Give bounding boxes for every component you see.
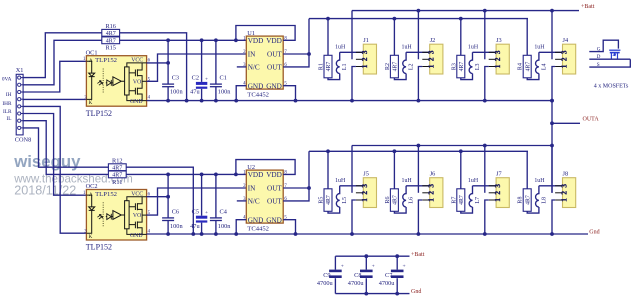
junction trunk top — [550, 99, 554, 103]
svg-text:TLP152: TLP152 — [95, 191, 117, 198]
wire OUTA trunk lower — [551, 146, 553, 193]
wire OC2 VO riser to U2 IN — [147, 188, 247, 215]
junction C4 bottom — [214, 232, 218, 236]
label C5 — [192, 209, 199, 216]
svg-text:J6: J6 — [430, 171, 436, 178]
wire X1 pin4 to OC1 cathode — [23, 98, 86, 100]
svg-text:OC1: OC1 — [86, 49, 98, 56]
OC1 isolation barrier — [102, 69, 104, 94]
label 1uH L7 — [468, 178, 479, 184]
label R1 — [319, 63, 325, 70]
svg-text:C5: C5 — [192, 209, 199, 216]
svg-text:R3: R3 — [451, 63, 457, 70]
wire J4 pin 1 to rail — [552, 67, 555, 101]
net label IHR — [2, 101, 12, 107]
junction C5 bottom — [200, 232, 204, 236]
OC2 amplifier — [113, 211, 125, 220]
junction feed J3 — [483, 9, 487, 13]
watermark wiseguy — [13, 152, 81, 171]
svg-text:3: 3 — [560, 50, 568, 54]
label R3 — [451, 63, 457, 70]
label C4 value — [218, 223, 231, 230]
svg-text:1uH: 1uH — [534, 44, 545, 50]
svg-text:+: + — [403, 264, 406, 270]
label R16 — [105, 23, 116, 30]
connector J1 body — [363, 44, 376, 74]
svg-text:A: A — [89, 193, 93, 198]
net label Gnd bottom — [411, 289, 421, 295]
junction C2 top — [200, 38, 204, 42]
junction gate rail R3 — [459, 17, 463, 21]
wire L1 to J1 pin 3 — [340, 51, 364, 53]
junction U1 OUT pins — [307, 52, 311, 56]
J4 pin 3 — [555, 50, 568, 54]
wire L2 to J2 pin 3 — [406, 51, 430, 53]
label OC1 VO — [133, 79, 141, 85]
junction U1 GND pin5 — [294, 99, 298, 103]
junction J4 pin1 rail — [550, 99, 554, 103]
label 1uH L8 — [534, 178, 545, 184]
wire R3 to L3 — [461, 74, 473, 80]
inductor L4 — [536, 52, 539, 73]
junction gate rail R1 — [326, 17, 330, 21]
label L2 — [409, 63, 415, 70]
watermark date — [14, 183, 76, 197]
label R2 — [385, 63, 391, 70]
svg-text:+: + — [205, 76, 208, 82]
junction C8 bottom — [364, 292, 368, 296]
OC1 lower transistor — [129, 81, 142, 100]
junction C8 top — [364, 254, 368, 258]
op-amp driver U1 body — [246, 36, 283, 89]
label OC1 — [86, 49, 98, 56]
svg-text:1: 1 — [494, 64, 502, 68]
wire R15 output VDD rail A — [120, 39, 247, 41]
svg-text:1: 1 — [494, 198, 502, 202]
inductor L2 — [403, 52, 406, 73]
svg-text:1uH: 1uH — [335, 178, 346, 184]
wire X1 pin6 to OC2 anode — [23, 114, 86, 196]
resistor R12 — [108, 164, 126, 172]
net label 0VA — [2, 77, 12, 83]
wire J6 pin 1 to rail — [418, 200, 422, 234]
svg-text:N/C: N/C — [248, 198, 260, 206]
svg-text:N/C: N/C — [248, 64, 260, 72]
label U2 pin 7 OUT — [267, 184, 287, 193]
wire gate rail to R3 — [460, 19, 462, 56]
label L5 — [342, 197, 348, 204]
junction C1 top — [214, 38, 218, 42]
wire U1 GND pin5 drop — [283, 86, 295, 101]
junction C6 bottom — [166, 232, 170, 236]
svg-text:VCC: VCC — [131, 192, 143, 198]
label C3 value — [170, 89, 183, 96]
svg-text:4R7: 4R7 — [106, 39, 116, 45]
connector J3 body — [496, 44, 509, 74]
OC1 inner VCC rail — [127, 63, 147, 67]
svg-text:+: + — [205, 210, 208, 216]
wire drain rail B — [352, 145, 552, 147]
label U2 pin 4 GND — [243, 216, 263, 225]
wire OUTA trunk upper — [551, 101, 553, 146]
wire L4 to J4 pin 3 — [539, 51, 563, 53]
label OC2 — [86, 183, 98, 190]
svg-text:U1: U1 — [247, 30, 255, 37]
label C1 value — [218, 89, 231, 96]
svg-text:GND: GND — [130, 233, 143, 239]
svg-text:1uH: 1uH — [534, 178, 545, 184]
svg-text:J8: J8 — [563, 171, 569, 178]
J6 pin 1 — [422, 198, 435, 202]
wire X1 pin7 to R11 — [23, 121, 108, 175]
connector X1 pin 5 circle — [18, 105, 24, 108]
wire L7 to J7 pin 3 — [473, 185, 497, 187]
label C2 value — [190, 89, 200, 96]
op-amp driver U2 body — [246, 170, 283, 223]
label C9 — [323, 272, 330, 279]
label 1uH L2 — [402, 44, 413, 50]
resistor R6 — [390, 189, 398, 212]
capacitor C5 — [196, 174, 208, 234]
wire source lead — [589, 59, 630, 67]
svg-text:R2: R2 — [385, 63, 391, 70]
svg-text:2: 2 — [494, 57, 502, 61]
svg-text:R5: R5 — [319, 197, 325, 204]
svg-text:J3: J3 — [496, 37, 502, 44]
junction J8 pin1 rail — [550, 232, 554, 236]
label U2 pin 2 IN — [243, 184, 256, 193]
svg-text:4R7: 4R7 — [393, 62, 399, 72]
connector X1 pin 2 circle — [18, 83, 24, 86]
transistor Q legs — [611, 53, 617, 60]
wire L6 to J6 pin 3 — [406, 185, 430, 187]
wire U1 VDD loop — [236, 26, 295, 41]
label X1 — [16, 67, 24, 74]
OC1 amplifier — [113, 77, 125, 86]
svg-text:C4: C4 — [220, 209, 228, 216]
label 1uH L5 — [335, 178, 346, 184]
svg-text:+: + — [341, 264, 344, 270]
svg-text:100n: 100n — [170, 89, 183, 96]
svg-text:R1: R1 — [319, 63, 325, 70]
wire +rail to J1 pin 2 — [351, 11, 353, 60]
label 1uH L1 — [335, 44, 346, 50]
wire gate lead — [589, 40, 618, 51]
wire +Batt rail — [352, 10, 579, 12]
svg-text:4 x MOSFETs: 4 x MOSFETs — [594, 83, 629, 89]
wire gate rail A — [309, 18, 528, 20]
label C2 — [192, 75, 199, 82]
connector X1 pin 6 circle — [18, 112, 24, 115]
wire ground rail B (Gnd) — [147, 233, 588, 235]
junction R12 drop — [191, 232, 195, 236]
junction J2 pin1 rail — [417, 99, 421, 103]
svg-text:R7: R7 — [451, 197, 457, 204]
resistor R11 — [108, 171, 126, 179]
svg-text:3: 3 — [560, 184, 568, 188]
svg-text:+Batt: +Batt — [411, 252, 425, 258]
wire gate rail B — [309, 150, 528, 152]
svg-text:R8: R8 — [518, 197, 524, 204]
label U1 pin 2 IN — [243, 50, 256, 59]
inductor L6 — [403, 186, 406, 207]
svg-text:+Batt: +Batt — [581, 4, 595, 10]
wire gate rail to R1 — [327, 19, 329, 56]
wire U1 OUT riser — [283, 19, 309, 67]
junction C7 bottom — [395, 292, 399, 296]
resistor R3 — [457, 55, 465, 78]
wire X1 pin3 to OC1 anode — [23, 61, 86, 92]
junction U2 OUT pins — [307, 186, 311, 190]
opto-coupler OC1 body — [86, 56, 146, 106]
label U1 pin 8 VDD — [266, 36, 287, 45]
label OC1 pin 1 — [83, 57, 86, 62]
svg-text:4R7: 4R7 — [525, 195, 531, 205]
label R7 — [451, 197, 457, 204]
wire +rail to J4 pin 2 — [551, 11, 553, 60]
svg-text:1uH: 1uH — [468, 178, 479, 184]
svg-text:C9: C9 — [323, 272, 330, 279]
label U2 pin 8 VDD — [266, 170, 287, 179]
J5 pin 3 — [356, 184, 369, 188]
connector X1 pin 7 circle — [18, 119, 24, 122]
wire R1 to L1 — [328, 74, 340, 80]
wire OC1 VO riser to U1 IN — [147, 54, 247, 81]
label OC1 pin 6 — [148, 59, 151, 64]
svg-text:VDD: VDD — [266, 171, 282, 179]
OC2 upper transistor — [129, 197, 142, 215]
label R12 — [112, 158, 123, 165]
label L6 — [409, 197, 415, 204]
svg-text:X1: X1 — [16, 67, 24, 74]
svg-text:C8: C8 — [354, 272, 361, 279]
inductor L1 — [336, 52, 339, 73]
OC2 isolation barrier — [102, 202, 104, 227]
svg-text:VDD: VDD — [248, 37, 264, 45]
label J8 — [563, 171, 569, 178]
OC1 LED — [86, 61, 94, 99]
label U2 pin 6 OUT — [267, 197, 287, 206]
junction C5 top — [200, 173, 204, 177]
svg-text:TLP152: TLP152 — [86, 243, 112, 252]
label C1 — [220, 75, 227, 82]
svg-text:IL: IL — [7, 116, 12, 122]
J1 pin 1 — [356, 64, 369, 68]
wire L8 to J8 pin 3 — [539, 185, 563, 187]
svg-text:L8: L8 — [541, 197, 547, 204]
wire +rail to J7 pin 2 — [484, 146, 486, 193]
label J1 — [363, 37, 369, 44]
net label IH — [6, 92, 12, 98]
label OC2 pin 1 — [83, 191, 86, 196]
J2 pin 2 — [422, 57, 435, 61]
svg-text:100n: 100n — [218, 89, 231, 96]
wire X1 pin2 to R15 — [23, 40, 102, 85]
J8 pin 2 — [555, 191, 568, 195]
label U2 — [247, 164, 255, 171]
junction gate rail R7 — [459, 149, 463, 153]
svg-text:OUT: OUT — [267, 185, 282, 193]
svg-text:TLP152: TLP152 — [95, 57, 117, 64]
label C3 — [172, 75, 179, 82]
net label OUTA — [583, 116, 600, 122]
svg-text:J7: J7 — [496, 171, 502, 178]
svg-text:C1: C1 — [220, 75, 227, 82]
wire U2 NC stub — [237, 200, 247, 202]
svg-text:IN: IN — [248, 51, 256, 59]
svg-text:VDD: VDD — [248, 171, 264, 179]
svg-text:R11: R11 — [112, 179, 122, 186]
svg-text:K: K — [89, 235, 93, 240]
label OC1 pin 4 — [148, 96, 151, 101]
wire R16 output to ground rail — [120, 33, 187, 101]
J8 pin 3 — [555, 184, 568, 188]
wire +Batt rail bottom — [335, 255, 409, 257]
junction OUTA tap — [550, 121, 554, 125]
capacitor C4 — [210, 174, 222, 234]
label OC1 pin K — [89, 101, 93, 106]
OC2 lower transistor — [129, 215, 142, 234]
junction C3 top — [166, 38, 170, 42]
svg-text:TC4452: TC4452 — [247, 92, 269, 99]
wire J3 pin 1 to rail — [485, 67, 489, 101]
wire gate rail to R2 — [393, 19, 395, 56]
junction C7 top — [395, 254, 399, 258]
label D — [597, 54, 601, 60]
wire gate rail to R6 — [393, 151, 395, 189]
wire J2 pin 1 to rail — [418, 67, 422, 101]
junction R16 drop — [185, 99, 189, 103]
svg-text:4R7: 4R7 — [393, 195, 399, 205]
OC1 inner GND rail — [127, 95, 147, 101]
label U1 pin 5 GND — [266, 82, 287, 91]
svg-text:J4: J4 — [563, 37, 569, 44]
label C6 — [172, 209, 179, 216]
junction gate rail R2 — [393, 17, 397, 21]
connector J7 body — [496, 178, 509, 208]
svg-text:L3: L3 — [475, 63, 481, 70]
label J2 — [430, 37, 436, 44]
connector X1 pin 3 circle — [18, 90, 24, 93]
inductor L5 — [336, 186, 339, 207]
svg-text:4R7: 4R7 — [326, 62, 332, 72]
resistor R7 — [457, 189, 465, 212]
svg-text:U2: U2 — [247, 164, 255, 171]
J5 pin 1 — [356, 198, 369, 202]
svg-text:4R7: 4R7 — [106, 31, 116, 37]
label C8 value — [348, 280, 365, 287]
label L3 — [475, 63, 481, 70]
svg-text:GND: GND — [266, 82, 282, 90]
wire X1 pin8 to R12 — [23, 128, 108, 167]
svg-text:IH: IH — [6, 92, 12, 98]
label R4 — [518, 63, 524, 70]
label U1 pin 1 VDD — [243, 36, 263, 45]
svg-text:R12: R12 — [112, 158, 123, 165]
label OC1 GND — [130, 99, 143, 105]
label C8 — [354, 272, 361, 279]
svg-text:1uH: 1uH — [402, 44, 413, 50]
label R6 — [385, 197, 391, 204]
label U2 pin 5 GND — [266, 216, 287, 225]
J6 pin 3 — [422, 184, 435, 188]
label G — [597, 46, 601, 52]
svg-text:2: 2 — [494, 191, 502, 195]
J3 pin 3 — [489, 50, 502, 54]
junction C6 top — [166, 173, 170, 177]
label L1 — [342, 63, 348, 70]
J4 pin 1 — [555, 64, 568, 68]
svg-text:ILR: ILR — [3, 109, 12, 115]
junction OC1 VCC — [166, 61, 170, 65]
wire gate rail to R7 — [460, 151, 462, 189]
wire R2 to L2 — [394, 74, 406, 80]
label U2 pin 3 N/C — [243, 197, 260, 206]
svg-text:J2: J2 — [430, 37, 436, 44]
label OC2 pin 4 — [148, 229, 151, 234]
OC1 VO lead — [142, 80, 147, 82]
net label +Batt bottom — [411, 252, 425, 258]
label L7 — [475, 197, 481, 204]
svg-text:4R7: 4R7 — [112, 173, 122, 179]
svg-text:47u: 47u — [190, 89, 200, 96]
connector J8 body — [563, 178, 576, 208]
svg-text:VCC: VCC — [131, 58, 143, 64]
svg-text:wiseguy: wiseguy — [13, 152, 81, 171]
label OC1 pin 5 — [148, 77, 151, 82]
capacitor C8 — [360, 256, 375, 293]
label 4 x MOSFETs — [594, 83, 629, 89]
wire gate rail to R4 — [526, 19, 528, 56]
wire X1 pin5 to OC2 cathode — [23, 106, 86, 233]
label 1uH L3 — [468, 44, 479, 50]
label R15 — [105, 45, 116, 52]
label OC2 TLP152 inner — [95, 191, 117, 198]
svg-text:OUT: OUT — [267, 64, 282, 72]
inductor L8 — [536, 186, 539, 207]
label 1uH L4 — [534, 44, 545, 50]
svg-text:4R7: 4R7 — [525, 62, 531, 72]
label C5 value — [190, 223, 200, 230]
svg-text:OC2: OC2 — [86, 183, 98, 190]
resistor R15 — [102, 37, 120, 45]
svg-text:3: 3 — [361, 50, 369, 54]
resistor R2 — [390, 55, 398, 78]
label U1 pin 3 N/C — [243, 63, 260, 72]
svg-text:R15: R15 — [105, 45, 116, 52]
J7 pin 2 — [489, 191, 502, 195]
label U2 TC4452 — [247, 226, 269, 233]
watermark url — [13, 173, 133, 186]
svg-text:C6: C6 — [172, 209, 179, 216]
svg-text:K: K — [89, 101, 93, 106]
wire X1 pin1 to R16 — [23, 33, 102, 78]
label OC2 GND — [130, 233, 143, 239]
junction U1 VDD loop — [234, 38, 238, 42]
label OC2 pin 6 — [148, 192, 151, 197]
label OC2 VCC — [131, 192, 143, 198]
transistor Q channel — [610, 52, 620, 54]
svg-text:1: 1 — [361, 64, 369, 68]
opto-coupler OC2 body — [86, 190, 146, 241]
svg-text:2: 2 — [428, 57, 436, 61]
wire U1 GND pin4 drop — [236, 86, 246, 101]
label OC2 pin 5 — [148, 211, 151, 216]
label J3 — [496, 37, 502, 44]
label C6 value — [170, 223, 183, 230]
label L8 — [541, 197, 547, 204]
junction U2 GND pin5 — [294, 232, 298, 236]
